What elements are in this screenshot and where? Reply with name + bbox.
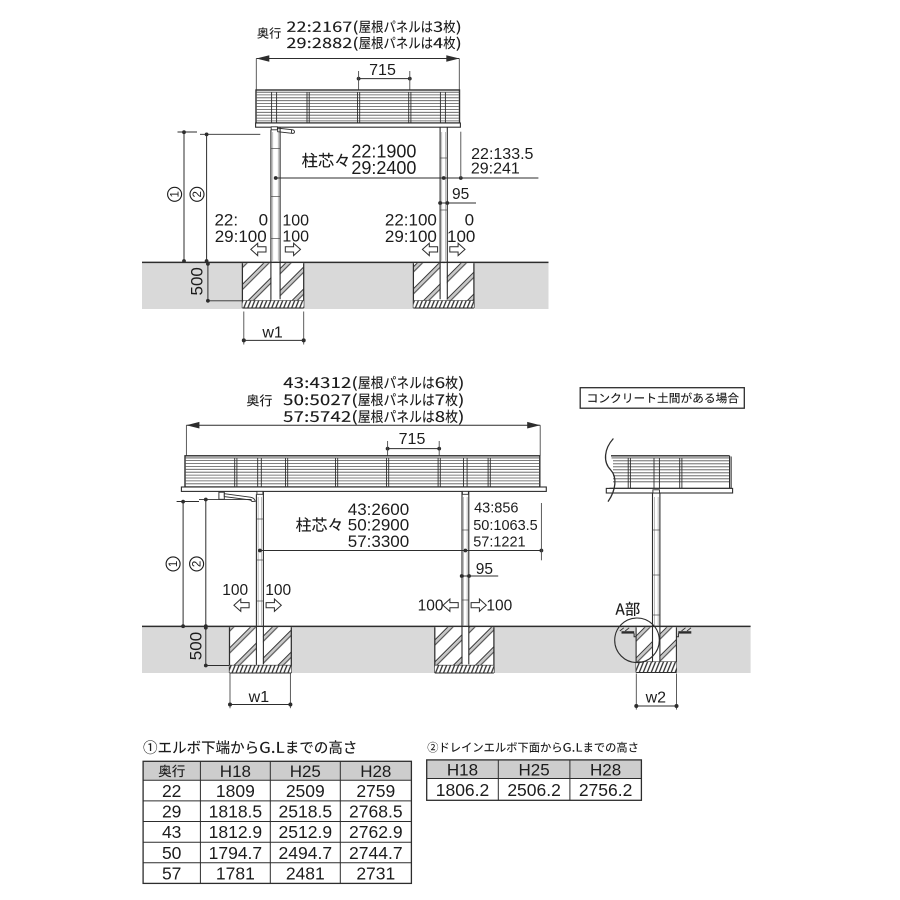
post spacing value 57 (view2) xyxy=(348,532,409,551)
depth label okuyuki (view1) xyxy=(257,27,281,38)
roof panel joint 5 (view2) xyxy=(438,458,440,487)
dimension 715 (view1) xyxy=(369,62,396,79)
table 1 header H25 xyxy=(290,762,321,781)
table 1 cell r1c3 xyxy=(286,781,325,801)
svg-text:50: 50 xyxy=(162,843,182,863)
detail circle A (view3) xyxy=(615,618,660,663)
adjust arrow left of left post (view2) xyxy=(234,599,249,611)
overall depth text line2 (view2) xyxy=(284,393,463,408)
overhang value 50 (view2) xyxy=(473,518,538,534)
svg-text:50:1063.5: 50:1063.5 xyxy=(473,518,538,534)
post-center label hashira-shinshin (view2) xyxy=(296,517,341,532)
post-center dimension line (view2) xyxy=(258,549,543,553)
left post lines through roof (view1) xyxy=(272,92,277,127)
svg-text:100: 100 xyxy=(282,229,309,246)
svg-text:100: 100 xyxy=(486,598,512,615)
roof panel joint B / 715 left tick (view1) xyxy=(358,92,360,123)
right post lines through roof (view1) xyxy=(440,92,445,127)
post width 95 (view1) xyxy=(452,186,469,203)
drain elbow on left post (view1) xyxy=(278,128,295,133)
svg-text:2762.9: 2762.9 xyxy=(349,822,403,842)
table 1 cell r2c2 xyxy=(209,802,263,822)
table 2 header H18 xyxy=(447,760,478,779)
extension line at roof right edge for 133.5 dim (view1) xyxy=(460,132,462,179)
overall depth text line3 (view2) xyxy=(284,410,463,425)
svg-text:2494.7: 2494.7 xyxy=(279,843,333,863)
svg-text:22: 22 xyxy=(162,781,181,801)
svg-text:2: 2 xyxy=(192,191,204,197)
right post lines through roof (view2) xyxy=(464,458,468,492)
table 1 header H28 xyxy=(360,762,391,781)
svg-text:2759: 2759 xyxy=(356,781,395,801)
table 1 cell r3c2 xyxy=(209,822,263,842)
left post P1 (view2) xyxy=(256,491,263,664)
svg-text:1818.5: 1818.5 xyxy=(209,802,263,822)
extension line left roof edge (view2) xyxy=(185,425,187,455)
roof bottom beam (view2) xyxy=(181,487,546,491)
left post label 22 (view1) xyxy=(214,211,238,230)
right post label 100 (view1) xyxy=(447,227,475,246)
svg-text:100: 100 xyxy=(222,582,248,599)
right post P2 (view1) xyxy=(440,127,447,299)
svg-text:H25: H25 xyxy=(290,762,321,781)
extension line right roof edge (view2) xyxy=(539,425,541,455)
right post label 29:100 (view1) xyxy=(385,227,437,246)
svg-text:2731: 2731 xyxy=(356,864,395,884)
adjust arrow left of right post (view2) xyxy=(443,599,458,611)
overhang value 22 (view1) xyxy=(471,146,533,163)
adjust arrow right of right post (view2) xyxy=(471,599,486,611)
svg-text:1806.2: 1806.2 xyxy=(436,780,490,800)
table 1 cell r5c3 xyxy=(286,864,325,884)
overhang value 29 (view1) xyxy=(471,160,520,177)
table 1 title xyxy=(144,740,356,754)
svg-text:2518.5: 2518.5 xyxy=(279,802,333,822)
svg-text:H18: H18 xyxy=(447,760,478,779)
left footing (view1) xyxy=(242,263,303,308)
roof bottom beam (view1) xyxy=(256,123,461,127)
roof panel joint A (view1) xyxy=(307,92,309,123)
table 1 cell r3c1 xyxy=(162,822,181,842)
concrete slab step right (view3) xyxy=(676,628,691,637)
table 1 cell r5c1 xyxy=(162,864,181,884)
circled number 1 (view2) xyxy=(166,557,180,571)
svg-text:29:100: 29:100 xyxy=(215,227,267,246)
svg-text:1794.7: 1794.7 xyxy=(209,843,263,863)
dimension 715 (view2) xyxy=(399,431,426,448)
svg-text:95: 95 xyxy=(476,561,493,578)
overall depth text line1 (view1) xyxy=(287,20,460,35)
right post label 0 (view1) xyxy=(465,211,474,230)
svg-text:w1: w1 xyxy=(248,689,270,706)
left footing (view2) xyxy=(230,627,292,673)
extension line left roof edge (view1) xyxy=(255,59,257,90)
svg-text:100: 100 xyxy=(418,598,444,615)
svg-text:500: 500 xyxy=(186,632,205,660)
post spacing value 43 (view2) xyxy=(348,500,409,519)
svg-text:1: 1 xyxy=(168,561,180,567)
table 1 cell r5c4 xyxy=(356,864,395,884)
svg-text:2509: 2509 xyxy=(286,781,325,801)
500 depth dimension (view1) xyxy=(206,262,242,303)
roof panel joint 2 (view2) xyxy=(286,458,288,487)
height dimension line 2 (view1) xyxy=(200,133,260,263)
post-center label hashira-shinshin (view1) xyxy=(302,153,348,168)
95 dimension line (view2) xyxy=(460,574,498,578)
title box concrete slab case xyxy=(580,388,744,409)
height dimension line 1 (view2) xyxy=(177,500,199,628)
overall depth text line2 (view1) xyxy=(287,36,460,51)
overall depth dimension line (view1) xyxy=(256,55,459,62)
circled number 2 (view1) xyxy=(190,187,204,201)
extension line at roof right edge (view2) xyxy=(540,503,542,560)
roof fragment (view3) xyxy=(610,456,732,489)
table 2 value 1806.2 xyxy=(436,780,490,800)
w1 label (view2) xyxy=(248,689,270,706)
table 1 header okuyuki xyxy=(159,765,185,778)
table 1 cell r3c3 xyxy=(279,822,333,842)
svg-text:2506.2: 2506.2 xyxy=(507,780,561,800)
table 1 cell r3c4 xyxy=(349,822,403,842)
table 1 cell r1c4 xyxy=(356,781,395,801)
post lines through roof (view3) xyxy=(654,458,659,493)
adjust arrow right of right post (view1) xyxy=(450,243,465,255)
roof bottom beam (view3) xyxy=(606,488,732,493)
svg-text:2768.5: 2768.5 xyxy=(349,802,403,822)
svg-text:100: 100 xyxy=(447,227,475,246)
roof panel assembly (view2) xyxy=(185,456,540,487)
svg-text:H28: H28 xyxy=(590,760,621,779)
svg-text:715: 715 xyxy=(399,431,426,448)
roof panel joint C / 715 right tick (view1) xyxy=(409,92,411,123)
svg-text:500: 500 xyxy=(187,267,206,295)
svg-text:1809: 1809 xyxy=(216,781,255,801)
table 1 cell r5c2 xyxy=(216,864,255,884)
svg-text:100: 100 xyxy=(265,582,291,599)
height dimension line 2 (view2) xyxy=(199,498,252,628)
table 1 cell r4c2 xyxy=(209,843,263,863)
post spacing value 29 (view1) xyxy=(351,158,416,178)
roof panel assembly (view1) xyxy=(256,90,460,123)
roof panel joint 4 (view2) xyxy=(387,458,389,487)
circled number 2 (view2) xyxy=(190,557,204,571)
left post label 29:100 (view1) xyxy=(215,227,267,246)
svg-text:1: 1 xyxy=(170,191,182,197)
left post lines through roof (view2) xyxy=(258,458,262,492)
svg-text:29: 29 xyxy=(162,802,181,822)
715 dimension line (view2) xyxy=(386,441,441,456)
post-center dimension line (view1) xyxy=(274,176,539,180)
ground (view2 and view3) xyxy=(142,626,751,673)
roof panel joint 1 (view2) xyxy=(235,458,237,487)
post cap (view3) xyxy=(653,490,660,493)
table 1 cell r2c4 xyxy=(349,802,403,822)
svg-text:57:3300: 57:3300 xyxy=(348,532,409,551)
svg-text:43:856: 43:856 xyxy=(474,501,518,517)
left post label 100 b (view2) xyxy=(265,582,291,599)
post width 95 (view2) xyxy=(476,561,493,578)
table 2 title xyxy=(428,742,638,753)
left post inner label 100 b (view1) xyxy=(282,229,309,246)
post spacing value 50 (view2) xyxy=(348,516,409,535)
500 label (view1) xyxy=(187,267,206,295)
table 1 cell r4c3 xyxy=(279,843,333,863)
depth label okuyuki (view2) xyxy=(247,394,272,406)
post spacing value 22 (view1) xyxy=(351,141,416,161)
715 dimension line (view1) xyxy=(357,71,412,90)
table 1 cell r4c1 xyxy=(162,843,182,863)
svg-text:H25: H25 xyxy=(519,760,550,779)
ground (view1) xyxy=(142,262,549,309)
table 1 cell r2c1 xyxy=(162,802,181,822)
adjust arrow left of left post (view1) xyxy=(251,243,266,255)
svg-text:715: 715 xyxy=(369,62,396,79)
500 label (view2) xyxy=(186,632,205,660)
svg-text:57:1221: 57:1221 xyxy=(473,534,525,550)
svg-text:w1: w1 xyxy=(261,325,283,342)
roof panel joint 1 (view3) xyxy=(628,458,630,489)
w1 dimension (view2) xyxy=(228,674,292,709)
overhang value 43 (view2) xyxy=(474,501,518,517)
overall depth dimension line (view2) xyxy=(186,422,540,429)
roof panel joint 2 (view3) xyxy=(680,458,682,489)
svg-text:2512.9: 2512.9 xyxy=(279,822,333,842)
title text concrete slab case xyxy=(588,392,738,403)
svg-text:2: 2 xyxy=(192,561,204,567)
post P (view3) xyxy=(653,493,660,662)
500 depth dimension (view2) xyxy=(204,626,230,668)
adjust arrow right of left post (view2) xyxy=(266,599,281,611)
left post label 100 a (view2) xyxy=(222,582,248,599)
svg-text:29:2400: 29:2400 xyxy=(351,158,416,178)
svg-text:2744.7: 2744.7 xyxy=(349,843,403,863)
svg-text:43: 43 xyxy=(162,822,181,842)
table 1 cell r2c3 xyxy=(279,802,333,822)
roof panel joint 3 (view2) xyxy=(336,458,338,487)
drain elbow on left post, pointing left (view2) xyxy=(219,492,255,501)
w1 dimension (view1) xyxy=(242,312,306,345)
extension line right roof edge (view1) xyxy=(458,59,460,90)
svg-text:2481: 2481 xyxy=(286,864,325,884)
right footing (view2) xyxy=(435,627,494,673)
svg-text:57: 57 xyxy=(162,864,181,884)
svg-text:H28: H28 xyxy=(360,762,391,781)
footing with concrete slab (view3) xyxy=(636,627,676,672)
right post label 100 left (view2) xyxy=(418,598,444,615)
right post label 100 right (view2) xyxy=(486,598,512,615)
break squiggle line (view3) xyxy=(606,439,615,502)
table 1 cell r1c1 xyxy=(162,781,181,801)
svg-text:29:241: 29:241 xyxy=(471,160,520,177)
circled number 1 (view1) xyxy=(168,187,182,201)
svg-text:95: 95 xyxy=(452,186,469,203)
table 1 cell r4c4 xyxy=(349,843,403,863)
svg-text:1812.9: 1812.9 xyxy=(209,822,263,842)
left post cap (view1) xyxy=(271,127,277,130)
w2 label (view3) xyxy=(645,689,667,706)
left post label 0 (view1) xyxy=(259,211,268,230)
overhang value 57 (view2) xyxy=(473,534,525,550)
svg-text:100: 100 xyxy=(282,212,309,229)
95 dimension line (view1) xyxy=(438,201,476,205)
overall depth text line1 (view2) xyxy=(284,376,463,391)
w1 label (view1) xyxy=(261,325,283,342)
height dimension line 1 (view1) xyxy=(178,130,198,263)
svg-text:1781: 1781 xyxy=(216,864,255,884)
w2 dimension (view3) xyxy=(634,674,678,710)
table 1 cell r1c2 xyxy=(216,781,255,801)
concrete slab step left (view3) xyxy=(620,628,636,637)
left post cap (view2) xyxy=(257,491,263,494)
right post P2 (view2) xyxy=(462,491,469,664)
left post inner label 100 a (view1) xyxy=(282,212,309,229)
adjust arrow left of right post (view1) xyxy=(422,243,437,255)
svg-text:w2: w2 xyxy=(645,689,667,706)
adjust arrow right of left post (view1) xyxy=(285,243,300,255)
svg-text:H18: H18 xyxy=(220,762,251,781)
table 2 header H28 xyxy=(590,760,621,779)
table 1 header H18 xyxy=(220,762,251,781)
left post P1 (view1) xyxy=(271,127,280,299)
table 2 value 2506.2 xyxy=(507,780,561,800)
right post label 22:100 (view1) xyxy=(385,211,437,230)
roof panel joint 6 (view2) xyxy=(488,458,490,487)
svg-text:2756.2: 2756.2 xyxy=(579,780,633,800)
detail label A-bu (view3) xyxy=(615,602,639,616)
right footing (view1) xyxy=(413,263,474,308)
table 2 value 2756.2 xyxy=(579,780,633,800)
table 2 header H25 xyxy=(519,760,550,779)
